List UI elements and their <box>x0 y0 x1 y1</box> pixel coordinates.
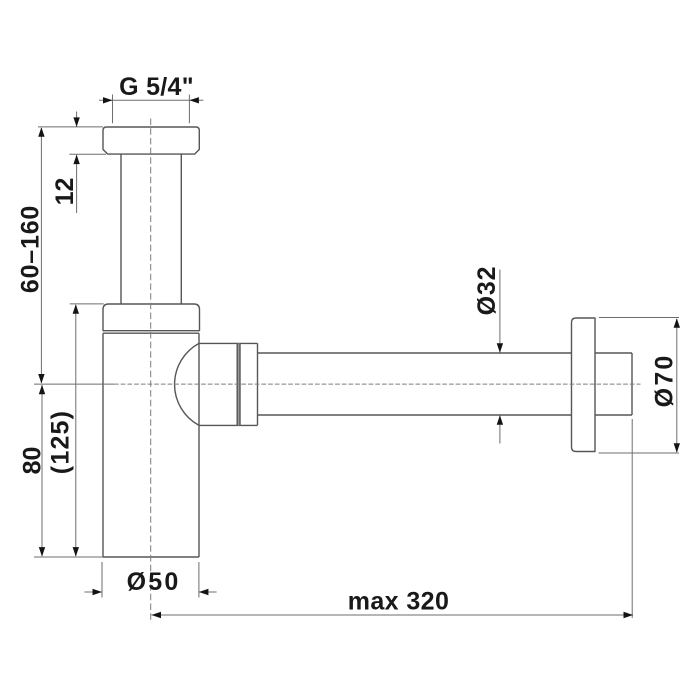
dim 12 bottom leader <box>76 155 78 213</box>
dim G5/4 line <box>99 99 203 101</box>
svg-text:80: 80 <box>19 447 47 475</box>
arrow max320 left <box>152 612 162 618</box>
compression nut on body <box>103 304 200 331</box>
vertical inlet pipe <box>121 154 181 304</box>
vertical centerline <box>150 119 152 624</box>
arrow max320 right <box>624 612 634 618</box>
dim G5/4 extension lines <box>113 95 190 124</box>
centerline left extension <box>34 383 114 385</box>
svg-text:12: 12 <box>51 178 79 206</box>
arrow 125 top <box>73 304 79 314</box>
dim max320 line <box>152 614 634 616</box>
trap body cylinder <box>103 333 199 557</box>
svg-text:Ø50: Ø50 <box>127 568 181 596</box>
arrow D50 right <box>199 589 209 595</box>
dim D50 extension lines <box>102 562 199 598</box>
dim 60-160 line <box>40 128 42 383</box>
arrow 60-160 top <box>38 127 44 137</box>
arrow 125 bottom <box>73 547 79 557</box>
dim D50 line segments <box>84 591 216 593</box>
dim D70 top extension <box>599 317 679 319</box>
arrow 80 top <box>39 385 45 395</box>
arrow D32 top <box>497 343 503 353</box>
flange-top extension line <box>38 126 103 128</box>
arrow D70 bottom <box>674 443 680 453</box>
arrow D70 top <box>674 318 680 328</box>
arrow 12 top <box>73 117 79 127</box>
top flange (G 5/4 nut) <box>103 127 199 154</box>
outlet ring <box>237 343 241 425</box>
body top edge <box>103 332 199 334</box>
arrow D50 left <box>93 589 103 595</box>
wall pipe end cap <box>595 353 632 415</box>
dim D70 line <box>676 319 678 452</box>
arrow D32 bottom <box>497 415 503 425</box>
dim D32 lower leader <box>499 416 501 444</box>
dim D32 upper leader <box>499 270 501 353</box>
wall flange (escutcheon) <box>572 318 596 452</box>
svg-text:60–160: 60–160 <box>16 205 44 293</box>
body-bottom left extension <box>34 556 103 558</box>
dim 125 line <box>75 305 77 556</box>
dim max320 right extension <box>631 419 633 618</box>
outlet horn top and bottom edges <box>199 343 258 425</box>
outlet horn arc <box>175 343 199 425</box>
svg-text:Ø70: Ø70 <box>651 353 679 407</box>
arrow G5/4 right <box>189 97 199 103</box>
dim 12 top leader <box>76 112 78 127</box>
dim 125 top extension <box>70 303 104 305</box>
arrow 12 bottom <box>73 155 79 165</box>
svg-text:(125): (125) <box>47 410 75 474</box>
horizontal centerline <box>114 383 641 385</box>
svg-text:max 320: max 320 <box>348 587 450 615</box>
dim D70 bottom extension <box>599 452 679 454</box>
dim 12 bottom extension <box>69 153 106 155</box>
svg-text:G 5/4": G 5/4" <box>119 73 194 101</box>
dim 80 line <box>41 385 43 556</box>
horizontal outlet pipe <box>258 353 572 415</box>
arrow 80 bottom <box>39 547 45 557</box>
arrow 60-160 bottom <box>38 374 44 384</box>
arrow G5/4 left <box>103 97 113 103</box>
svg-text:Ø32: Ø32 <box>473 266 501 316</box>
outlet nut right edge <box>257 343 259 425</box>
